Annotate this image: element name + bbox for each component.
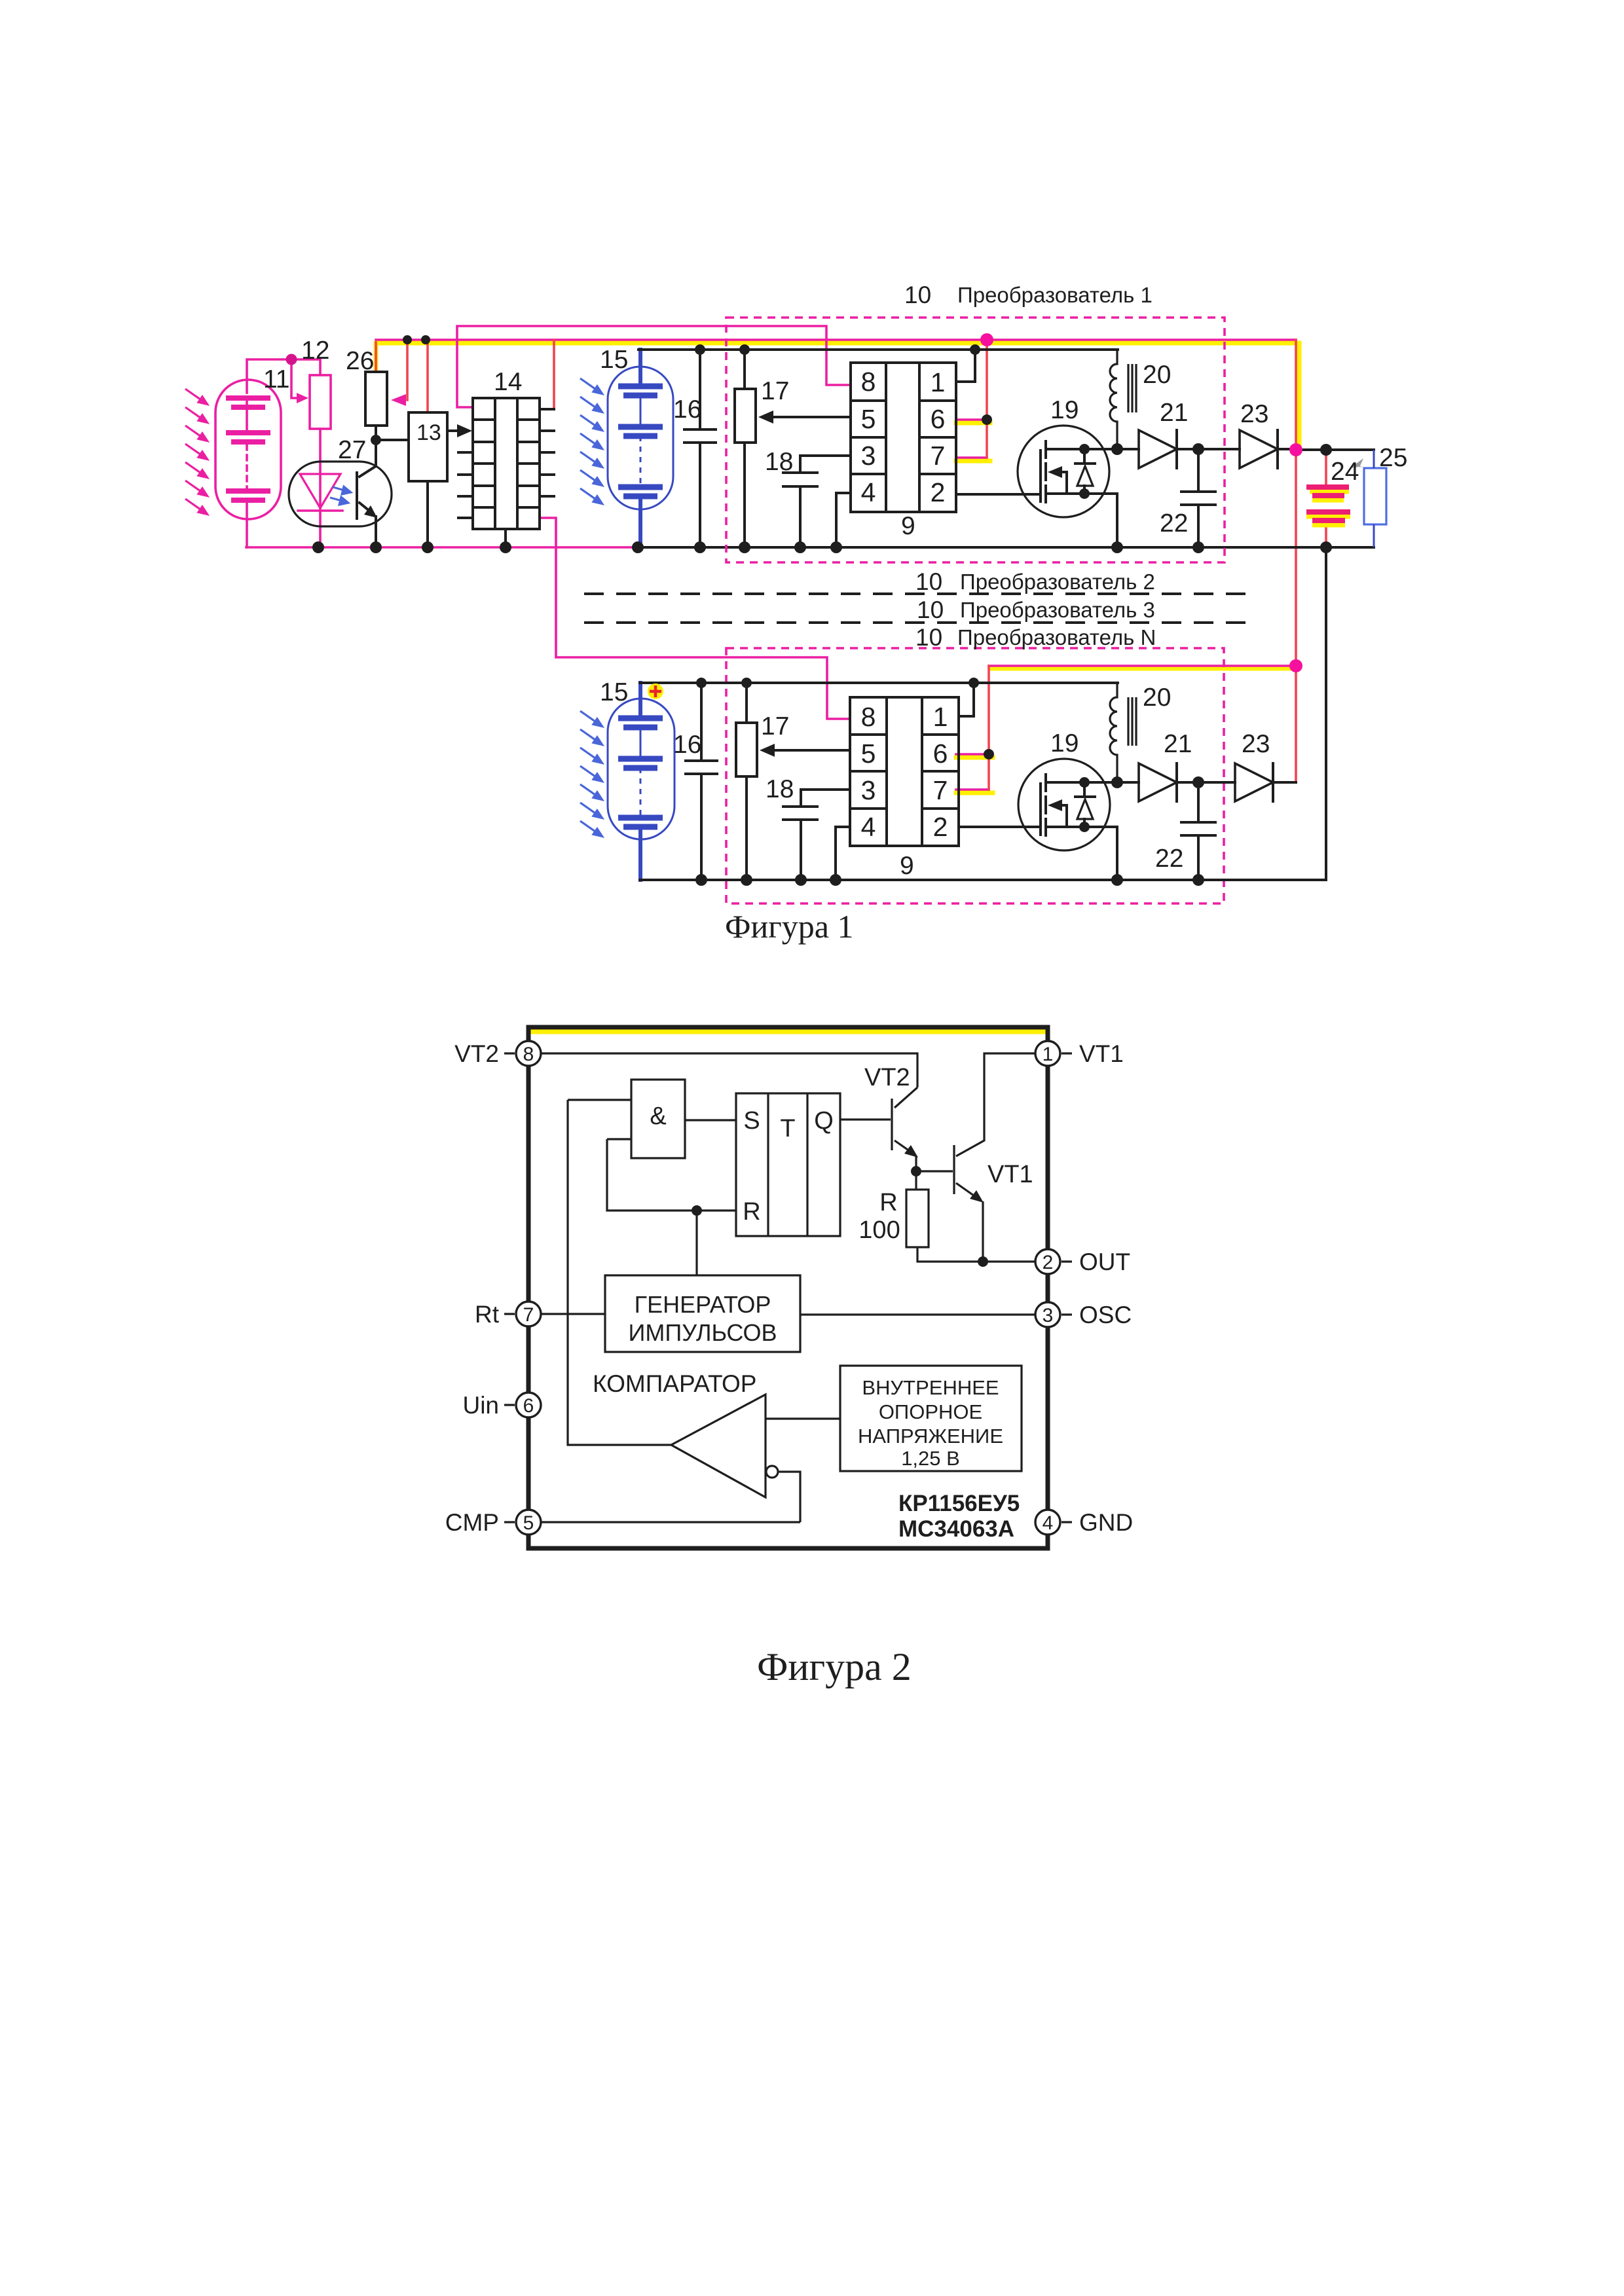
svg-text:Q: Q <box>814 1107 834 1135</box>
svg-text:Преобразователь 3: Преобразователь 3 <box>960 598 1155 622</box>
svg-text:3: 3 <box>861 775 876 805</box>
svg-text:6: 6 <box>933 738 948 769</box>
svg-text:9: 9 <box>900 852 914 880</box>
svg-text:23: 23 <box>1242 730 1270 758</box>
svg-text:6: 6 <box>931 404 946 434</box>
svg-text:CMP: CMP <box>445 1509 499 1536</box>
svg-text:18: 18 <box>766 775 794 803</box>
svg-text:КОМПАРАТОР: КОМПАРАТОР <box>593 1370 756 1397</box>
svg-text:20: 20 <box>1143 361 1171 389</box>
svg-text:Rt: Rt <box>475 1301 500 1328</box>
svg-text:VT1: VT1 <box>987 1161 1033 1188</box>
svg-text:2: 2 <box>1043 1252 1054 1273</box>
svg-text:10: 10 <box>915 568 942 595</box>
svg-text:T: T <box>780 1115 795 1142</box>
svg-text:21: 21 <box>1164 730 1192 758</box>
svg-text:19: 19 <box>1050 729 1079 757</box>
svg-text:1,25 В: 1,25 В <box>901 1447 960 1470</box>
svg-text:22: 22 <box>1155 845 1183 873</box>
svg-text:16: 16 <box>673 395 701 424</box>
svg-text:1: 1 <box>931 367 946 397</box>
svg-text:9: 9 <box>901 512 915 540</box>
svg-text:10: 10 <box>915 624 942 651</box>
svg-text:4: 4 <box>861 812 876 842</box>
svg-text:26: 26 <box>346 347 374 375</box>
svg-text:Преобразователь 1: Преобразователь 1 <box>957 283 1153 307</box>
svg-text:18: 18 <box>765 448 793 476</box>
svg-text:7: 7 <box>523 1304 534 1326</box>
svg-text:2: 2 <box>933 812 948 842</box>
svg-text:Uin: Uin <box>462 1392 499 1419</box>
svg-text:25: 25 <box>1379 444 1407 472</box>
svg-text:Преобразователь 2: Преобразователь 2 <box>960 570 1155 594</box>
svg-text:10: 10 <box>917 596 944 623</box>
svg-text:ОПОРНОЕ: ОПОРНОЕ <box>879 1400 982 1423</box>
svg-text:2: 2 <box>931 477 946 507</box>
svg-text:10: 10 <box>904 282 931 308</box>
svg-text:17: 17 <box>761 377 789 405</box>
svg-text:22: 22 <box>1160 509 1188 538</box>
svg-text:ИМПУЛЬСОВ: ИМПУЛЬСОВ <box>628 1319 777 1346</box>
svg-text:5: 5 <box>861 738 876 769</box>
svg-text:12: 12 <box>301 337 329 365</box>
svg-text:1: 1 <box>1043 1044 1054 1065</box>
svg-text:27: 27 <box>338 436 366 464</box>
svg-text:Фигура 2: Фигура 2 <box>757 1645 912 1688</box>
svg-text:5: 5 <box>861 404 876 434</box>
svg-text:ВНУТРЕННЕЕ: ВНУТРЕННЕЕ <box>862 1376 999 1399</box>
svg-text:НАПРЯЖЕНИЕ: НАПРЯЖЕНИЕ <box>858 1425 1003 1448</box>
svg-text:21: 21 <box>1160 399 1188 427</box>
svg-text:GND: GND <box>1079 1509 1133 1536</box>
svg-text:3: 3 <box>861 441 876 471</box>
svg-text:5: 5 <box>523 1512 534 1534</box>
svg-text:4: 4 <box>861 477 876 507</box>
svg-text:15: 15 <box>600 346 628 374</box>
svg-text:КР1156ЕУ5: КР1156ЕУ5 <box>898 1491 1020 1516</box>
svg-text:R: R <box>879 1189 897 1216</box>
svg-text:МС34063А: МС34063А <box>898 1516 1014 1542</box>
svg-text:19: 19 <box>1050 396 1079 424</box>
svg-text:17: 17 <box>761 712 789 740</box>
svg-text:14: 14 <box>494 368 522 396</box>
svg-text:VT1: VT1 <box>1079 1040 1124 1067</box>
svg-text:7: 7 <box>933 775 948 805</box>
svg-text:15: 15 <box>600 678 628 706</box>
svg-text:6: 6 <box>523 1395 534 1417</box>
svg-text:8: 8 <box>523 1044 534 1065</box>
svg-text:11: 11 <box>263 365 290 393</box>
svg-text:OUT: OUT <box>1079 1248 1130 1275</box>
svg-text:13: 13 <box>416 420 441 445</box>
svg-text:8: 8 <box>861 367 876 397</box>
svg-text:24: 24 <box>1331 458 1359 486</box>
svg-text:1: 1 <box>933 702 948 732</box>
svg-text:16: 16 <box>673 731 701 759</box>
svg-text:Фигура 1: Фигура 1 <box>725 908 853 945</box>
svg-text:VT2: VT2 <box>864 1064 910 1091</box>
svg-text:VT2: VT2 <box>454 1040 499 1067</box>
svg-text:S: S <box>743 1107 760 1135</box>
svg-text:23: 23 <box>1240 400 1268 428</box>
svg-text:&: & <box>650 1102 666 1130</box>
svg-text:8: 8 <box>861 702 876 732</box>
svg-text:20: 20 <box>1143 683 1171 712</box>
svg-text:100: 100 <box>858 1216 900 1244</box>
svg-text:7: 7 <box>931 441 946 471</box>
svg-text:R: R <box>743 1198 760 1226</box>
svg-text:Преобразователь N: Преобразователь N <box>957 625 1156 649</box>
svg-text:3: 3 <box>1043 1305 1054 1326</box>
svg-text:4: 4 <box>1043 1512 1054 1534</box>
svg-text:OSC: OSC <box>1079 1302 1132 1328</box>
svg-text:ГЕНЕРАТОР: ГЕНЕРАТОР <box>635 1291 771 1318</box>
